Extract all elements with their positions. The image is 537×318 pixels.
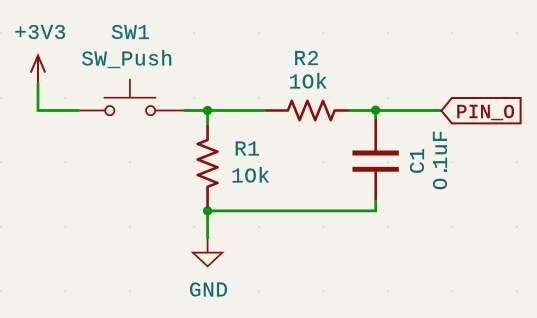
svg-text:SW_Push: SW_Push (81, 49, 173, 72)
svg-text:1Ok: 1Ok (289, 73, 329, 96)
svg-text:R1: R1 (234, 140, 260, 163)
svg-text:R2: R2 (294, 49, 320, 72)
svg-text:PIN_O: PIN_O (456, 102, 515, 124)
svg-text:1Ok: 1Ok (231, 166, 271, 189)
svg-text:GND: GND (189, 280, 229, 303)
svg-text:SW1: SW1 (111, 23, 151, 46)
svg-text:+3V3: +3V3 (14, 23, 67, 46)
svg-text:C1: C1 (408, 148, 431, 174)
svg-text:O.1uF: O.1uF (431, 130, 454, 191)
